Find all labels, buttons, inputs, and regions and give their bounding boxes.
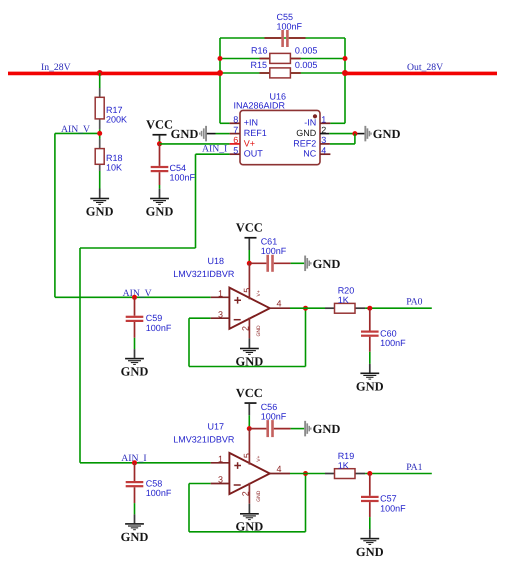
svg-text:GND: GND: [296, 128, 317, 138]
capacitor C60: [361, 308, 406, 352]
pin 8 +IN: [230, 122, 240, 124]
junction: VCC / C54 / pin6: [157, 141, 162, 146]
capacitor C58: [126, 463, 172, 503]
wire: C57 to ground: [369, 517, 371, 529]
junction: AIN_I / C58: [132, 460, 137, 465]
pin 3 - input (U17): [211, 483, 230, 485]
svg-text:3: 3: [218, 475, 223, 485]
wire: feedback pin3 (U17): [189, 483, 211, 485]
wire: C56 to GND port: [291, 428, 305, 430]
svg-text:GND: GND: [356, 380, 384, 394]
svg-text:5: 5: [242, 288, 252, 293]
minus sign: [234, 319, 241, 321]
svg-text:100nF: 100nF: [146, 323, 172, 333]
svg-text:GND: GND: [146, 205, 174, 219]
pin 4 NC: [320, 153, 330, 155]
resistor R15: [251, 60, 318, 78]
pin 6 V+: [230, 143, 240, 145]
wire: R20 to PA0: [365, 307, 432, 309]
wire: AIN_V horizontal: [55, 132, 100, 134]
plus sign: [234, 462, 241, 469]
wire: R16 row: [220, 58, 345, 60]
junction: VCC / C61 / pin5: [247, 261, 252, 266]
capacitor C59: [126, 297, 172, 338]
wire: pin8 +IN from left rail: [220, 122, 230, 124]
svg-text:1K: 1K: [338, 460, 349, 470]
wire: pin1 to right rail: [330, 122, 345, 124]
ground: U18 GND: [248, 338, 250, 348]
wire: C60 to ground: [369, 352, 371, 364]
svg-text:GND: GND: [256, 490, 262, 502]
wire: pin2 to GND port: [329, 133, 355, 135]
svg-text:C60: C60: [380, 328, 397, 338]
junction: output node: [303, 306, 308, 311]
pin 2 V- vertical: [248, 318, 250, 339]
svg-text:5: 5: [242, 453, 252, 458]
svg-text:3: 3: [218, 309, 223, 319]
svg-text:GND: GND: [356, 545, 384, 559]
svg-text:100nF: 100nF: [146, 488, 172, 498]
wire: Out_28V thick bus right segment: [345, 72, 497, 76]
pin 5 V+ vertical: [248, 263, 250, 299]
svg-text:8: 8: [233, 115, 238, 125]
svg-text:In_28V: In_28V: [41, 62, 71, 73]
pin 5 OUT: [230, 153, 240, 155]
junction: output node (U17): [303, 471, 308, 476]
svg-text:REF1: REF1: [244, 128, 267, 138]
svg-text:REF2: REF2: [293, 138, 316, 148]
svg-text:10K: 10K: [106, 162, 122, 172]
wire: AIN_I vertical drop: [195, 154, 197, 248]
wire: AIN_I into pin1: [80, 462, 211, 464]
svg-text:LMV321IDBVR: LMV321IDBVR: [173, 434, 235, 444]
wire: port to pin7: [216, 133, 230, 135]
port GND (C56): [304, 421, 340, 437]
junction: AIN_V divider tap: [97, 131, 102, 136]
svg-text:100nF: 100nF: [261, 411, 287, 421]
svg-text:100nF: 100nF: [380, 503, 406, 513]
pin 2 GND: [320, 133, 329, 135]
svg-text:INA286AIDR: INA286AIDR: [234, 101, 286, 111]
svg-text:AIN_V: AIN_V: [61, 124, 90, 135]
wire: R15 row: [220, 72, 345, 74]
svg-text:R16: R16: [251, 45, 268, 55]
svg-text:1K: 1K: [338, 295, 349, 305]
svg-text:GND: GND: [313, 422, 341, 436]
junction: AIN_V / C59: [132, 295, 137, 300]
wire: output to R20: [290, 307, 325, 309]
svg-text:Out_28V: Out_28V: [407, 62, 443, 73]
pin 2 V- vertical (U17): [248, 483, 250, 504]
svg-text:GND: GND: [121, 530, 149, 544]
svg-text:2: 2: [321, 125, 326, 135]
svg-text:R15: R15: [251, 60, 268, 70]
svg-text:V+: V+: [256, 290, 262, 296]
svg-text:V+: V+: [256, 455, 262, 461]
svg-text:PA0: PA0: [406, 297, 422, 308]
svg-text:C56: C56: [261, 402, 278, 412]
svg-text:VCC: VCC: [146, 117, 173, 131]
ground: C60 GND: [360, 373, 379, 380]
plus sign: [234, 297, 241, 304]
pin 5 V+ vertical (U17): [248, 429, 250, 465]
junction: R19 / C57: [367, 471, 372, 476]
wire: AIN_I from pin5: [196, 153, 230, 155]
svg-text:100nF: 100nF: [277, 21, 303, 31]
pin 3 REF2: [320, 143, 330, 145]
svg-text:U18: U18: [208, 256, 225, 266]
svg-text:C57: C57: [380, 494, 397, 504]
ground: U17 GND: [248, 504, 250, 514]
svg-text:1: 1: [321, 115, 326, 125]
svg-text:6: 6: [233, 135, 238, 145]
wire: AIN_V node segment: [99, 129, 101, 139]
junction dots top rails: [218, 56, 223, 61]
pin 7 REF1: [230, 133, 240, 135]
svg-text:0.005: 0.005: [295, 60, 318, 70]
wire: REF2 up to GND net: [330, 143, 355, 145]
power VCC (U17): [236, 386, 263, 429]
capacitor C54: [151, 144, 196, 185]
svg-text:VCC: VCC: [236, 386, 263, 400]
svg-text:PA1: PA1: [406, 462, 422, 473]
port GND (U16 pin2): [364, 126, 400, 142]
wire: R19 to PA1: [365, 473, 432, 475]
resistor R17: [95, 88, 127, 129]
svg-text:C54: C54: [170, 163, 187, 173]
wire: VCC to U16 pin6: [160, 143, 230, 145]
wire: R18 to ground: [99, 171, 101, 189]
wire: left rail x=220: [219, 38, 221, 123]
op IC U16 INA286AIDR body: [234, 91, 321, 164]
svg-text:C61: C61: [261, 237, 278, 247]
svg-text:NC: NC: [303, 149, 316, 159]
minus sign: [234, 484, 241, 486]
wire: AIN_V vertical long: [54, 133, 56, 297]
svg-text:R17: R17: [106, 105, 123, 115]
svg-text:GND: GND: [121, 365, 149, 379]
svg-text:100nF: 100nF: [170, 173, 196, 183]
power VCC (U18): [236, 221, 263, 264]
ground: C58 GND: [125, 523, 144, 530]
op-amp U17 triangle: [229, 453, 269, 494]
pin 4 output: [270, 307, 290, 309]
svg-text:GND: GND: [373, 127, 401, 141]
pin 4 output (U17): [270, 473, 290, 475]
ground: C59 GND: [125, 358, 144, 365]
svg-text:VCC: VCC: [236, 221, 263, 235]
wire: right rail x=345: [344, 38, 346, 123]
wire: C59 to ground: [134, 338, 136, 349]
capacitor C61: [249, 237, 290, 272]
svg-text:4: 4: [321, 145, 326, 155]
wire: AIN_I horizontal jog: [80, 247, 196, 249]
svg-text:GND: GND: [256, 325, 262, 337]
junction: REF2 to GND: [352, 131, 357, 136]
power VCC (C54): [146, 117, 173, 144]
wire: output to R19: [290, 473, 325, 475]
resistor R16: [251, 45, 317, 63]
resistor R20: [325, 286, 365, 314]
svg-text:GND: GND: [313, 257, 341, 271]
svg-text:GND: GND: [236, 520, 264, 534]
svg-text:AIN_V: AIN_V: [123, 288, 152, 299]
capacitor C57: [361, 474, 406, 518]
svg-text:GND: GND: [171, 127, 199, 141]
svg-text:4: 4: [277, 464, 282, 474]
svg-text:3: 3: [321, 135, 326, 145]
wire: In_28V thick bus left segment: [8, 72, 220, 76]
junction: R20 / C60: [367, 306, 372, 311]
wire: C61 to GND port: [291, 262, 305, 264]
svg-text:0.005: 0.005: [295, 45, 318, 55]
svg-text:2: 2: [240, 326, 250, 331]
ground: R18 GND: [90, 198, 109, 205]
svg-text:-IN: -IN: [304, 118, 316, 128]
svg-text:5: 5: [233, 145, 238, 155]
ground: C57 GND: [360, 538, 379, 545]
capacitor C56: [249, 402, 290, 437]
pin 1 -IN: [320, 122, 330, 124]
wire: bus down to R17: [99, 73, 101, 88]
op-amp U18 triangle: [229, 288, 269, 329]
pin 3 - input: [211, 317, 230, 319]
ground: C54 GND: [150, 198, 169, 205]
svg-text:LMV321IDBVR: LMV321IDBVR: [173, 269, 235, 279]
wire: feedback pin3: [189, 317, 211, 319]
svg-text:1: 1: [218, 288, 223, 298]
junction: VCC / C56 / pin5: [247, 426, 252, 431]
resistor R19: [325, 451, 365, 479]
svg-text:4: 4: [277, 299, 282, 309]
wire: C55 top rail: [220, 37, 345, 39]
svg-text:100nF: 100nF: [380, 338, 406, 348]
junction: bus to R17: [97, 70, 103, 76]
svg-text:OUT: OUT: [244, 149, 263, 159]
svg-text:C59: C59: [146, 313, 163, 323]
port GND (U16 pin7): [171, 126, 216, 142]
pin 1 + input: [211, 296, 230, 298]
svg-text:GND: GND: [236, 354, 264, 368]
svg-text:U17: U17: [208, 421, 225, 431]
svg-text:+IN: +IN: [244, 118, 258, 128]
svg-text:2: 2: [240, 491, 250, 496]
wire: AIN_V into pin1: [55, 296, 211, 298]
svg-text:200K: 200K: [106, 114, 127, 124]
capacitor C55: [265, 12, 306, 47]
svg-text:C58: C58: [146, 479, 163, 489]
resistor R18: [95, 139, 122, 172]
pin 1 + input (U17): [211, 462, 230, 464]
svg-text:1: 1: [218, 454, 223, 464]
svg-text:100nF: 100nF: [261, 246, 287, 256]
svg-text:GND: GND: [86, 205, 114, 219]
svg-text:7: 7: [233, 125, 238, 135]
port GND (C61): [304, 256, 340, 271]
wire: AIN_I long vertical: [79, 248, 81, 463]
wire: C58 to ground: [134, 503, 136, 514]
wire: C54 to ground: [159, 185, 161, 189]
svg-text:V+: V+: [244, 138, 255, 148]
svg-text:AIN_I: AIN_I: [202, 143, 227, 154]
